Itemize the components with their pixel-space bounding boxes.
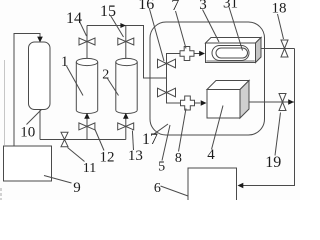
cylinder 2 bbox=[116, 58, 137, 113]
wire left riser from box 9 up and over to condenser 10 bbox=[14, 34, 40, 147]
enclosure 5 (rounded rectangle) bbox=[150, 22, 265, 135]
svg-text:17: 17 bbox=[142, 131, 158, 148]
leader 15 bbox=[111, 16, 124, 38]
wire manifold vertical inside enclosure bbox=[167, 54, 182, 104]
wire bottom bus bbox=[40, 139, 126, 141]
svg-text:1: 1 bbox=[61, 54, 69, 70]
wire top header from cylinder pipes to enclosure bbox=[87, 26, 167, 79]
reactor 4 (3D box) bbox=[207, 81, 249, 119]
wire pipe above cylinder 2 bbox=[125, 26, 127, 59]
svg-text:12: 12 bbox=[100, 150, 115, 166]
svg-text:2: 2 bbox=[102, 67, 109, 82]
leader 7 bbox=[176, 11, 187, 49]
svg-text:7: 7 bbox=[171, 0, 179, 14]
cylinder 1 bbox=[76, 58, 97, 113]
valve 11 (hourglass on bus) bbox=[61, 132, 68, 146]
leader 11 bbox=[68, 148, 85, 162]
box 6 bbox=[188, 168, 237, 202]
leader 8 bbox=[179, 109, 187, 152]
leader 13 bbox=[132, 131, 133, 151]
leader 4 bbox=[212, 106, 224, 150]
arrowhead up into cylinder 1 bbox=[84, 113, 90, 119]
furnace 3 (3D box) bbox=[206, 38, 262, 63]
arrowhead up into cylinder 2 bbox=[123, 113, 129, 119]
leader 18 bbox=[278, 14, 284, 39]
valve 19 (hourglass) bbox=[279, 94, 286, 111]
svg-text:15: 15 bbox=[100, 3, 116, 20]
svg-text:11: 11 bbox=[83, 161, 96, 176]
leader 5 bbox=[162, 125, 170, 161]
svg-text:5: 5 bbox=[158, 159, 165, 174]
arrowhead into furnace 3 bbox=[199, 51, 205, 56]
leader 6 bbox=[161, 186, 189, 196]
valve 17 bbox=[158, 88, 176, 97]
wire from vessel 10 bottom to bus bbox=[39, 110, 41, 140]
leader 19 bbox=[275, 113, 281, 156]
vessel 10 (rounded tank) bbox=[29, 42, 51, 110]
svg-text:4: 4 bbox=[207, 147, 215, 163]
svg-text:31: 31 bbox=[223, 0, 238, 12]
leader 2 bbox=[108, 79, 119, 96]
svg-text:6: 6 bbox=[154, 181, 161, 196]
tube 31 outer bbox=[212, 46, 249, 61]
pump 8 (cross symbol) bbox=[181, 96, 195, 110]
wire furnace 3 outlet bbox=[261, 48, 295, 50]
valve 15 bbox=[118, 38, 134, 45]
leader 3 bbox=[203, 10, 220, 43]
arrowhead into reactor 4 bbox=[201, 100, 207, 105]
svg-text:14: 14 bbox=[66, 10, 82, 27]
svg-text:13: 13 bbox=[128, 148, 143, 164]
pump 7 (cross symbol) bbox=[180, 47, 194, 61]
svg-text:10: 10 bbox=[20, 125, 35, 141]
box 9 bbox=[4, 146, 52, 181]
valve 14 bbox=[79, 38, 95, 45]
svg-text:9: 9 bbox=[73, 180, 81, 196]
wire pipe below cylinder 2 bbox=[125, 113, 127, 140]
svg-text:3: 3 bbox=[199, 0, 207, 13]
leader 31 bbox=[229, 7, 243, 51]
valve 13 bbox=[118, 123, 134, 130]
valve 12 bbox=[79, 123, 95, 130]
leader 9 bbox=[44, 176, 72, 184]
wire pump 7 to furnace 3 bbox=[194, 53, 200, 55]
leader 12 bbox=[95, 130, 104, 151]
scan streak left edge bbox=[1, 60, 5, 200]
valve 18 (hourglass) bbox=[281, 40, 288, 57]
leader 14 bbox=[80, 23, 87, 37]
svg-text:8: 8 bbox=[175, 151, 182, 166]
wire pipe below cylinder 1 bbox=[86, 113, 88, 140]
svg-text:16: 16 bbox=[138, 0, 154, 13]
arrowhead left into box 6 bbox=[238, 183, 244, 188]
wire pipe above cylinder 1 bbox=[86, 26, 88, 59]
wire reactor 4 outlet bbox=[249, 101, 295, 103]
leader 16 bbox=[150, 9, 165, 61]
valve 16 bbox=[158, 59, 176, 68]
arrowhead right at collector join bbox=[288, 99, 294, 104]
leader 17 bbox=[154, 124, 168, 134]
wire pump 8 to reactor 4 bbox=[195, 102, 201, 104]
leader 10 bbox=[27, 110, 42, 125]
svg-text:19: 19 bbox=[265, 154, 281, 171]
tube 31 inner bbox=[216, 48, 248, 58]
leader 1 bbox=[67, 66, 84, 96]
arrowhead down into vessel 10 bbox=[37, 37, 43, 43]
svg-text:18: 18 bbox=[272, 1, 287, 17]
arrowhead right on top header bbox=[120, 23, 126, 28]
wire right collector down and into box 6 bbox=[239, 49, 295, 186]
